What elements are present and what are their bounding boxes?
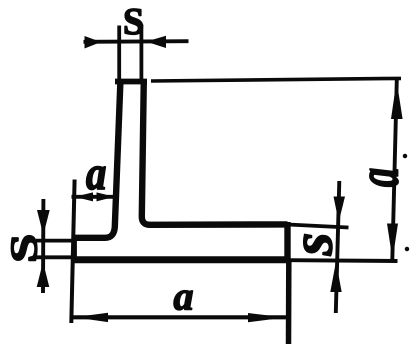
profile: left face of vertical leg with fillet into left flange top face [75, 79, 121, 238]
label S (left, rotated) [11, 236, 37, 260]
extension line: bottom face extended left for S dimension [36, 255, 72, 259]
dimension line: right s (vertical) [336, 181, 340, 313]
extension line: top face stub for s dimension [291, 225, 349, 228]
dimension line: right a (vertical) [392, 80, 397, 261]
profile: right end cap of flange [284, 222, 290, 262]
arrowhead: top S right (points left) [146, 36, 166, 48]
arrowhead: s up [330, 262, 341, 293]
speck [406, 248, 409, 251]
extension line: left flange top face extended left for S dimension [36, 239, 75, 243]
extension line: bottom face extended right to s and a dimensions [291, 258, 398, 263]
arrowhead: small a left [75, 192, 94, 201]
dimension line: small a (left middle) [72, 195, 118, 199]
arrowhead: bottom a left [74, 313, 108, 322]
label s (right, rotated) [304, 234, 332, 255]
arrowhead: bottom a right [248, 313, 286, 322]
profile: bottom face of flange [71, 256, 291, 263]
arrowhead: right a up [391, 81, 403, 120]
extension line: from leg top to right a dimension [151, 78, 401, 81]
label a (bottom) [174, 291, 193, 310]
dimension line: left S (vertical) [41, 199, 45, 293]
label S (top) [125, 9, 143, 35]
dimension line: top S [84, 39, 189, 43]
dimension line: bottom a [71, 315, 288, 319]
extension line: left of top S dimension [117, 26, 121, 81]
extension line: right of top S dimension [139, 25, 143, 80]
profile: right face of vertical leg with fillet into right flange top face [142, 79, 288, 225]
profile: top end cap of vertical leg [115, 79, 147, 85]
arrowhead: top S left (points right) [85, 36, 102, 49]
profile: left end cap of flange [71, 235, 76, 259]
arrowhead: left S down [37, 210, 50, 235]
label a (right, rotated) [370, 169, 398, 187]
speck [404, 155, 407, 158]
arrowhead: right a down [387, 224, 398, 260]
extension line: long left vertical (a dimensions) [71, 180, 74, 324]
extension line: right end cap extended down to bottom a dimension [286, 262, 292, 344]
label a (left middle) [86, 167, 105, 190]
arrowhead: s down [334, 197, 346, 223]
arrowhead: small a right [97, 192, 115, 201]
arrowhead: left S up [37, 262, 50, 287]
